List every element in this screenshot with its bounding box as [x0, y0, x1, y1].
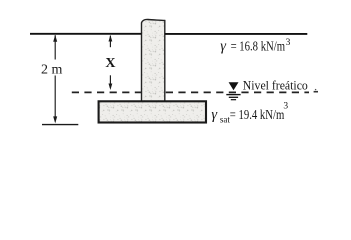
water table dash-dot line left segment [72, 91, 141, 93]
water table symbol hatch lines [226, 94, 240, 96]
svg-text:2 m: 2 m [41, 63, 63, 78]
svg-text:3: 3 [286, 38, 291, 48]
dimension X: lower arrow [109, 75, 113, 90]
svg-text:= 16.8 kN/m: = 16.8 kN/m [231, 38, 286, 53]
bottom reference tick [42, 124, 78, 126]
footing base slab [99, 101, 206, 122]
dimension X: upper arrow [109, 35, 113, 47]
water table dash-dot line right segment [166, 91, 309, 93]
svg-text:γ: γ [211, 107, 218, 123]
column pedestal (concrete stem) [142, 19, 165, 102]
ground surface line left segment [30, 33, 142, 35]
ground surface line right segment [165, 33, 307, 35]
svg-text:Nivel freático: Nivel freático [243, 77, 308, 92]
svg-text:X: X [105, 56, 115, 71]
water table line trailing dot [314, 91, 318, 93]
label gamma = 16.8 kN/m3 [220, 38, 290, 55]
dimension 2 m: lower arrow [53, 76, 57, 124]
dimension 2 m: upper arrow [53, 35, 57, 60]
water table symbol triangle [229, 82, 239, 90]
svg-text:3: 3 [283, 101, 288, 111]
label gamma_sat = 19.4 kN/m3 [211, 101, 288, 124]
svg-text:γ: γ [220, 39, 227, 55]
svg-text:= 19.4 kN/m: = 19.4 kN/m [230, 107, 285, 122]
